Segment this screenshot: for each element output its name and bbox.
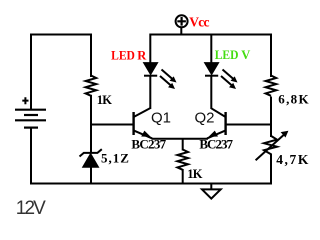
wire right column top (rail to R2) xyxy=(270,34,272,78)
svg-text:4,7K: 4,7K xyxy=(276,152,310,167)
svg-text:Vcc: Vcc xyxy=(189,14,209,29)
svg-text:LED: LED xyxy=(215,48,239,62)
wire R3 top lead xyxy=(182,139,184,151)
wire R2 bottom to pot top xyxy=(270,97,272,138)
power Vcc symbol xyxy=(176,15,188,27)
svg-text:LED: LED xyxy=(111,48,135,62)
svg-text:12V: 12V xyxy=(16,198,46,219)
wire battery+ to R1 top-left rail xyxy=(31,35,91,111)
battery B1 xyxy=(15,97,46,127)
svg-text:5,1Z: 5,1Z xyxy=(101,151,130,166)
wire pot bottom to rail xyxy=(270,154,272,185)
svg-text:R: R xyxy=(137,48,147,62)
svg-text:1K: 1K xyxy=(187,167,202,181)
LED LED V xyxy=(205,63,238,89)
wire LED V cathode lead xyxy=(210,76,212,109)
wire zener anode to bottom rail xyxy=(90,167,92,184)
wire R1 bottom to zener node xyxy=(90,95,92,153)
resistor R2 6,8K xyxy=(266,76,277,96)
svg-text:6,8K: 6,8K xyxy=(278,92,310,107)
wire LED V anode lead xyxy=(210,34,212,64)
wire bottom rail xyxy=(30,183,272,185)
wire LED R anode lead xyxy=(149,34,151,64)
wire Vcc stub xyxy=(180,27,182,36)
resistor R3 1K (emitter) xyxy=(177,150,188,170)
wire emitter rail xyxy=(152,138,209,140)
ground xyxy=(202,184,221,199)
wire LED R cathode lead xyxy=(149,76,151,109)
svg-text:V: V xyxy=(241,48,250,62)
zener D1 5,1Z xyxy=(80,149,102,167)
wire top rail xyxy=(150,34,272,36)
svg-text:1K: 1K xyxy=(97,93,112,107)
wire Q1 base wire xyxy=(91,124,134,126)
svg-text:Q1: Q1 xyxy=(151,110,171,127)
transistor Q1 BC237 xyxy=(134,108,153,138)
wire R1 top lead xyxy=(90,34,92,78)
wire battery- to bottom rail xyxy=(30,128,32,185)
svg-text:Q2: Q2 xyxy=(195,110,215,127)
transistor Q2 BC237 xyxy=(207,108,226,138)
resistor R1 1K xyxy=(86,76,97,96)
LED LED R xyxy=(144,63,177,89)
wire Q2 base wire xyxy=(226,124,271,126)
wire R3 bottom lead xyxy=(182,169,184,184)
potentiometer R4 4,7K xyxy=(256,131,289,161)
